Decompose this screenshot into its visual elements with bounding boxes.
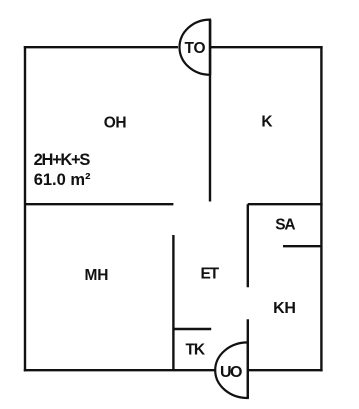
svg-text:UO: UO: [220, 364, 242, 381]
svg-text:61.0 m²: 61.0 m²: [34, 171, 91, 189]
svg-text:TK: TK: [185, 342, 205, 359]
svg-text:OH: OH: [104, 115, 127, 132]
svg-text:2H+K+S: 2H+K+S: [34, 151, 91, 169]
svg-text:ET: ET: [200, 266, 219, 283]
svg-text:SA: SA: [275, 217, 295, 234]
svg-text:MH: MH: [85, 267, 109, 284]
svg-text:TO: TO: [184, 40, 205, 57]
svg-text:K: K: [261, 113, 273, 130]
svg-text:KH: KH: [273, 300, 296, 317]
